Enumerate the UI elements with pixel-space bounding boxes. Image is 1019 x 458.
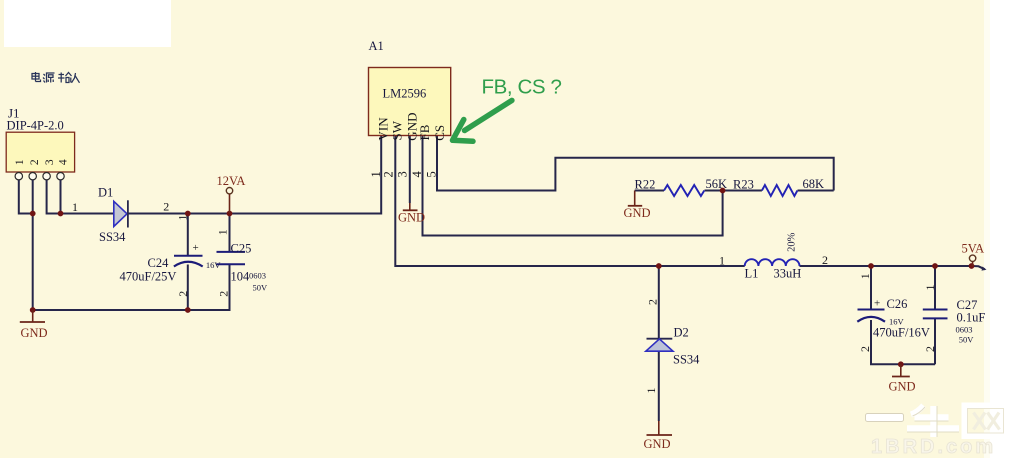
ground symbol LM2596 pin3 — [409, 203, 411, 210]
wire J1 pin1 down and right to pin2 column — [19, 180, 33, 214]
svg-text:2: 2 — [381, 171, 395, 177]
svg-text:D1: D1 — [98, 186, 113, 200]
svg-text:2: 2 — [29, 159, 41, 165]
svg-text:12VA: 12VA — [217, 174, 246, 188]
diode D1 cathode bar — [127, 200, 129, 227]
watermark char 网 — [965, 406, 1007, 437]
svg-text:FB, CS ?: FB, CS ? — [482, 76, 562, 99]
wire C26 bottom lead and output ground rail — [871, 320, 935, 364]
svg-text:2: 2 — [176, 291, 190, 297]
junction 5VA — [969, 263, 975, 269]
capacitor C26 top plate — [858, 309, 885, 311]
wire ground rail bottom-left — [33, 264, 230, 310]
capacitor C26 curved plate — [857, 317, 885, 322]
diode D1 triangle — [114, 201, 127, 226]
svg-text:+: + — [874, 298, 880, 310]
svg-text:33uH: 33uH — [774, 267, 802, 281]
svg-text:0.1uF: 0.1uF — [957, 311, 986, 325]
junction C24 top — [185, 211, 191, 217]
wire L1 to output caps — [800, 265, 972, 267]
svg-text:3: 3 — [395, 171, 409, 177]
svg-text:50V: 50V — [253, 283, 269, 293]
wire C26 top lead — [870, 266, 872, 310]
wire output rail to L1 — [659, 265, 745, 267]
wire D2 bottom lead — [658, 351, 660, 421]
svg-text:470uF/16V: 470uF/16V — [873, 326, 930, 340]
svg-text:2: 2 — [822, 253, 828, 267]
svg-text:2: 2 — [646, 299, 660, 305]
wire C27 bottom lead — [934, 318, 936, 364]
svg-text:C25: C25 — [231, 242, 252, 256]
svg-text:2: 2 — [858, 346, 872, 352]
wire node 12V rail: J1 to D1 anode — [61, 213, 114, 215]
svg-text:LM2596: LM2596 — [383, 87, 427, 101]
ground symbol J1 — [32, 310, 34, 322]
char 输 — [58, 73, 72, 83]
svg-text:0603: 0603 — [249, 271, 266, 281]
svg-text:20%: 20% — [787, 232, 798, 252]
J1 pin 3 circle — [43, 173, 50, 180]
watermark char 牛 — [907, 406, 959, 438]
wire C24 top lead — [187, 214, 189, 256]
junction R22/R23 tap — [720, 188, 726, 194]
wire C24 bottom lead — [187, 265, 189, 311]
svg-text:SW: SW — [390, 120, 405, 140]
white block top-left — [4, 0, 171, 47]
svg-text:R22: R22 — [635, 178, 656, 192]
svg-text:FB: FB — [417, 124, 432, 140]
junction C26 top — [868, 263, 874, 269]
svg-text:1: 1 — [216, 229, 230, 235]
svg-text:L1: L1 — [745, 267, 759, 281]
svg-text:5: 5 — [425, 171, 439, 177]
svg-text:CS: CS — [432, 125, 447, 141]
resistor R22 zigzag — [664, 185, 704, 196]
svg-text:GND: GND — [624, 206, 651, 220]
diode D2 cathode bar — [647, 338, 673, 340]
junction output gnd — [898, 361, 904, 367]
svg-text:56K: 56K — [706, 177, 728, 191]
char 源 — [43, 73, 55, 83]
svg-text:GND: GND — [398, 211, 425, 225]
svg-text:+: + — [193, 242, 199, 254]
svg-text:SS34: SS34 — [99, 230, 126, 244]
svg-text:1: 1 — [719, 254, 725, 268]
ground symbol C26/C27 — [900, 364, 902, 376]
resistor R23 zigzag — [762, 185, 798, 196]
svg-text:2: 2 — [923, 346, 937, 352]
wire LM2596 FB pin4 to divider tap — [423, 136, 723, 236]
svg-text:VIN: VIN — [376, 117, 391, 141]
wire J1 pin2 down to ground rail — [32, 180, 34, 310]
capacitor C25 top plate — [217, 251, 246, 253]
ground symbol D2 — [658, 421, 660, 435]
annotation arrow head — [453, 120, 474, 142]
capacitor C27 bottom plate — [923, 317, 948, 319]
svg-text:2: 2 — [217, 291, 231, 297]
wire LM2596 SW pin2 down to output rail — [395, 136, 659, 267]
wire R22 right to tap — [705, 190, 723, 192]
svg-text:5VA: 5VA — [962, 242, 985, 256]
svg-text:1BRD.com: 1BRD.com — [871, 436, 996, 458]
junction C27 top — [932, 263, 938, 269]
wire LM2596 GND pin3 stub — [409, 136, 411, 204]
junction gnd rail left — [30, 307, 36, 313]
label 电源输入 (power input) — [32, 72, 80, 83]
J1 pin 4 circle — [57, 173, 64, 180]
wire C27 top lead — [934, 266, 936, 310]
svg-text:1: 1 — [14, 159, 26, 165]
ground symbol R22 — [634, 191, 636, 206]
char 入 — [72, 73, 80, 83]
svg-text:16V: 16V — [206, 260, 222, 270]
junction D2 / output rail — [656, 263, 662, 269]
svg-text:1: 1 — [176, 215, 190, 221]
capacitor C25 bottom plate — [217, 263, 246, 265]
svg-text:D2: D2 — [674, 326, 689, 340]
watermark char 一 — [866, 414, 904, 422]
annotation arrow shaft — [465, 100, 512, 130]
svg-text:104: 104 — [231, 270, 251, 284]
capacitor C24 top plate — [174, 255, 203, 257]
svg-text:50V: 50V — [959, 335, 975, 345]
char 电 — [32, 72, 41, 82]
svg-text:SS34: SS34 — [673, 353, 700, 367]
diode D2 triangle — [646, 339, 673, 351]
regulator A1 body — [369, 68, 451, 136]
svg-text:1: 1 — [923, 285, 937, 291]
svg-text:C26: C26 — [887, 297, 908, 311]
svg-text:1: 1 — [644, 388, 658, 394]
svg-text:2: 2 — [163, 200, 169, 214]
svg-text:4: 4 — [58, 159, 70, 165]
connector J1 body — [6, 132, 74, 172]
svg-text:3: 3 — [44, 159, 56, 165]
inductor L1 — [745, 259, 800, 266]
svg-text:4: 4 — [410, 171, 424, 178]
junction J1 pin2 / gnd — [30, 211, 36, 217]
wire C25 top lead — [229, 214, 231, 252]
J1 pin 1 circle — [15, 173, 22, 180]
white strip right edge — [988, 0, 1019, 458]
wire 5VA tail — [972, 266, 985, 269]
svg-text:470uF/25V: 470uF/25V — [120, 270, 177, 284]
svg-text:A1: A1 — [369, 39, 384, 53]
svg-text:GND: GND — [644, 437, 671, 451]
wire J1 pin4 down — [60, 180, 62, 214]
junction gnd rail / C24 bottom — [185, 307, 191, 313]
svg-text:R23: R23 — [733, 178, 754, 192]
svg-text:C24: C24 — [148, 256, 170, 270]
capacitor C27 top plate — [923, 309, 948, 311]
wire D2 top lead — [658, 266, 660, 338]
svg-text:68K: 68K — [803, 177, 825, 191]
capacitor C24 curved plate — [174, 262, 203, 267]
wire J1 pin3 down and right to pin4 column — [47, 180, 61, 214]
svg-text:GND: GND — [889, 380, 916, 394]
svg-text:1: 1 — [858, 273, 872, 279]
svg-text:1: 1 — [72, 200, 78, 214]
wire LM2596 CS pin5 loop to R23 right end — [437, 136, 834, 191]
wire R22 left lead — [635, 190, 664, 192]
wire D1 cathode to VIN riser — [128, 136, 382, 214]
wire tap to R23 left — [723, 190, 762, 192]
svg-text:DIP-4P-2.0: DIP-4P-2.0 — [7, 119, 64, 133]
J1 pin 2 circle — [29, 173, 36, 180]
wire R23 right lead — [798, 190, 834, 192]
junction 12VA / C25 top — [227, 211, 233, 217]
watermark 一牛网 / 1BRD.com — [866, 406, 1007, 458]
junction J1 pin4 / 12V — [58, 211, 64, 217]
svg-text:0603: 0603 — [956, 325, 973, 335]
svg-text:GND: GND — [21, 326, 48, 340]
